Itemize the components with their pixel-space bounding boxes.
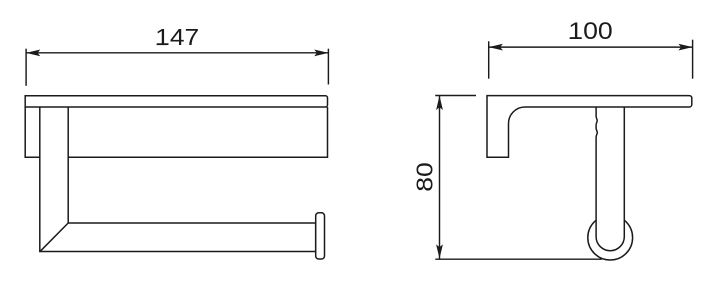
front view: corner chamfer diagonal <box>40 223 68 251</box>
arrowhead top <box>436 96 443 110</box>
dimension 80 <box>435 96 602 260</box>
extension line top <box>435 95 476 97</box>
arrowhead bottom <box>436 244 443 258</box>
svg-text:147: 147 <box>155 24 199 50</box>
dimension 147 <box>26 49 328 86</box>
dimension line <box>439 96 441 259</box>
extension line bottom <box>435 258 602 260</box>
svg-text:80: 80 <box>412 162 438 192</box>
side view: L-profile of shelf bracket <box>487 96 692 158</box>
dimension line <box>26 52 328 54</box>
svg-text:100: 100 <box>568 18 613 45</box>
extension line right <box>692 40 694 79</box>
extension line left <box>25 49 27 86</box>
arrowhead left <box>26 50 40 57</box>
front view: top shelf bar <box>25 96 327 107</box>
foot serif of digit 1 in 100 <box>570 37 580 39</box>
side view: hanging tube arm with U bottom <box>596 107 624 251</box>
arrowhead right <box>314 50 328 57</box>
front view: holder body front rect (wall plate + cover face) <box>25 107 327 157</box>
extension line left <box>488 41 490 78</box>
front view: end cap on arm <box>316 213 325 259</box>
arrowhead left <box>489 44 503 51</box>
side view: outer circle of end cap (drawn first, occluded by tube) <box>588 215 633 260</box>
arrowhead right <box>678 44 692 51</box>
foot serif of digit 1 in 147 <box>157 44 167 46</box>
front view: L-shaped roll arm (post + bottom bar), occludes body bottom edge <box>40 107 316 252</box>
extension line right <box>327 49 329 85</box>
dimension 100 <box>489 40 693 79</box>
dimension line <box>489 46 693 48</box>
